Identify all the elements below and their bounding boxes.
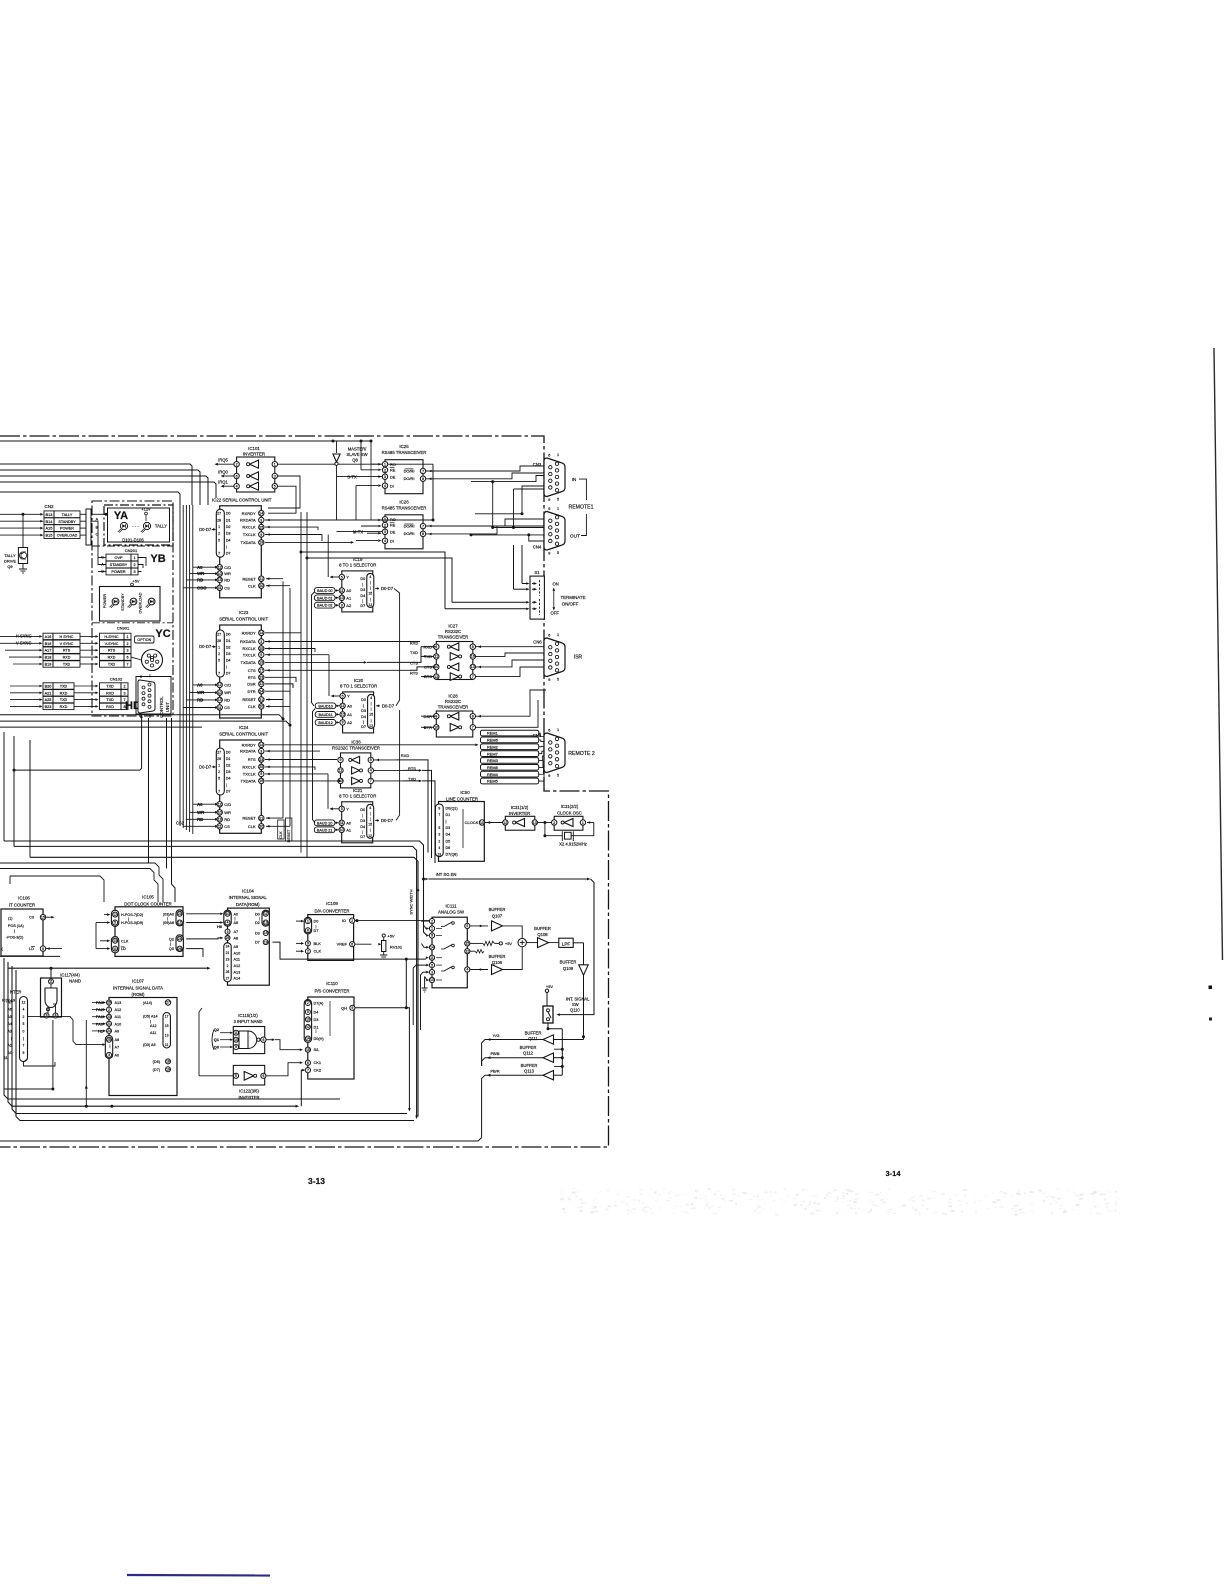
svg-text:27: 27 xyxy=(217,512,221,516)
svg-text:IC122(3/6): IC122(3/6) xyxy=(239,1089,259,1094)
svg-text:7: 7 xyxy=(472,675,474,679)
REM1-REM5 remote signal boxes xyxy=(481,730,546,784)
svg-text:RESET: RESET xyxy=(242,816,256,821)
svg-text:7: 7 xyxy=(218,552,220,556)
wires IC23 control A0 WR RD xyxy=(183,683,218,709)
svg-text:19: 19 xyxy=(259,661,263,665)
svg-text:15: 15 xyxy=(264,931,268,935)
svg-text:5: 5 xyxy=(557,498,559,502)
wire IC20 Y output xyxy=(329,655,340,698)
svg-text:YB: YB xyxy=(150,553,165,565)
svg-text:D2: D2 xyxy=(226,763,231,767)
svg-text:5: 5 xyxy=(218,776,220,780)
svg-text:YA: YA xyxy=(114,510,128,522)
svg-text:6: 6 xyxy=(548,728,550,732)
svg-text:1: 1 xyxy=(557,506,559,510)
page number 3-13 xyxy=(308,1176,325,1186)
serial control unit IC22 xyxy=(199,497,272,598)
svg-text:REM8: REM8 xyxy=(487,765,498,770)
svg-text:+5V: +5V xyxy=(546,984,554,989)
wire top bus y441 xyxy=(0,440,373,443)
svg-text:CN301: CN301 xyxy=(117,626,130,631)
svg-text:Y: Y xyxy=(346,575,349,580)
svg-text:DO/RI: DO/RI xyxy=(404,476,415,481)
svg-text:9: 9 xyxy=(548,678,550,682)
svg-text:PA2: PA2 xyxy=(96,1008,103,1012)
svg-text:DE: DE xyxy=(390,529,396,534)
svg-text:D7: D7 xyxy=(360,604,365,608)
svg-text:TXCLK: TXCLK xyxy=(243,772,256,777)
svg-text:BUFFER: BUFFER xyxy=(560,960,577,965)
svg-text:11: 11 xyxy=(340,589,344,593)
svg-text:H-POS-0(D9): H-POS-0(D9) xyxy=(121,921,143,925)
svg-text:5: 5 xyxy=(307,1010,309,1014)
svg-text:CS: CS xyxy=(224,705,230,710)
wire IC21 Y output xyxy=(328,774,339,810)
svg-text:9: 9 xyxy=(260,653,262,657)
svg-text:13: 13 xyxy=(218,698,222,702)
svg-text:9: 9 xyxy=(46,1014,48,1018)
svg-text:3: 3 xyxy=(123,691,125,695)
svg-text:VREF: VREF xyxy=(337,942,348,947)
svg-text:REM1: REM1 xyxy=(487,731,498,736)
svg-text:RXRDY: RXRDY xyxy=(242,742,256,747)
svg-text:D2: D2 xyxy=(226,645,231,649)
svg-text:10: 10 xyxy=(218,811,222,815)
svg-text:A0: A0 xyxy=(197,802,203,807)
svg-text:CLK: CLK xyxy=(248,704,256,709)
svg-text:25: 25 xyxy=(107,1038,111,1042)
svg-text:RS232C: RS232C xyxy=(445,699,461,704)
svg-text:|: | xyxy=(226,783,227,787)
svg-text:Q0: Q0 xyxy=(169,947,174,951)
svg-text:A12: A12 xyxy=(234,964,241,968)
wire BAUD select chain vertical xyxy=(312,592,316,823)
svg-text:INT SG EN: INT SG EN xyxy=(436,872,457,877)
svg-text:DATA(ROM): DATA(ROM) xyxy=(236,902,260,907)
svg-text:CLK: CLK xyxy=(314,949,322,954)
svg-text:DI: DI xyxy=(390,483,394,488)
svg-text:1: 1 xyxy=(149,674,151,678)
svg-text:|: | xyxy=(170,942,171,946)
svg-text:|: | xyxy=(235,916,236,920)
svg-text:REM2: REM2 xyxy=(487,744,498,749)
transistor Q8 master slave switch xyxy=(333,441,368,520)
connector CN5 REMOTE2 xyxy=(533,728,595,778)
svg-text:- - -: - - - xyxy=(132,524,139,529)
svg-text:IC20: IC20 xyxy=(354,678,364,683)
svg-text:BAUD 21: BAUD 21 xyxy=(317,828,332,832)
crystal X2 xyxy=(543,821,593,847)
svg-text:7: 7 xyxy=(23,1044,25,1048)
svg-text:D3: D3 xyxy=(361,709,366,713)
svg-text:LD: LD xyxy=(29,947,34,951)
svg-text:3: 3 xyxy=(260,640,262,644)
svg-text:8 TO 1 SELECTOR: 8 TO 1 SELECTOR xyxy=(340,683,377,688)
svg-text:POS (1A): POS (1A) xyxy=(8,924,24,928)
svg-text:11: 11 xyxy=(264,912,268,916)
svg-text:DTR: DTR xyxy=(247,689,255,694)
converter IC110 P/S xyxy=(304,981,355,1079)
svg-text:6: 6 xyxy=(435,645,437,649)
svg-text:15: 15 xyxy=(165,1024,169,1028)
svg-text:4: 4 xyxy=(369,806,371,810)
svg-text:3: 3 xyxy=(126,649,128,653)
page edge line right xyxy=(1214,348,1223,960)
switch S1 terminate xyxy=(530,570,586,619)
svg-text:REMOTE1: REMOTE1 xyxy=(568,505,593,511)
svg-text:A7: A7 xyxy=(234,930,239,934)
svg-text:B18: B18 xyxy=(45,656,52,660)
svg-text:OVERLOAD: OVERLOAD xyxy=(57,534,78,538)
svg-text:A0: A0 xyxy=(197,565,203,570)
svg-text:CK2: CK2 xyxy=(314,1068,322,1073)
svg-text:TALLY: TALLY xyxy=(4,553,16,558)
svg-text:RD: RD xyxy=(197,578,203,583)
svg-text:A1: A1 xyxy=(346,595,352,600)
svg-text:S/L: S/L xyxy=(314,1047,321,1052)
svg-text:IC26: IC26 xyxy=(399,499,409,504)
svg-text:POWER: POWER xyxy=(60,527,74,531)
svg-text:IC109: IC109 xyxy=(326,901,338,906)
svg-text:IO: IO xyxy=(342,918,346,923)
svg-text:A11: A11 xyxy=(234,958,240,962)
ROM IC104 internal signal data xyxy=(217,889,269,986)
svg-text:12: 12 xyxy=(218,565,222,569)
svg-text:RE: RE xyxy=(390,468,396,473)
svg-text:28: 28 xyxy=(217,639,221,643)
svg-text:5: 5 xyxy=(466,924,468,928)
svg-text:10: 10 xyxy=(218,691,222,695)
svg-text:A2: A2 xyxy=(346,603,352,608)
svg-text:26: 26 xyxy=(178,947,182,951)
svg-text:A21: A21 xyxy=(45,691,52,695)
svg-text:12: 12 xyxy=(218,802,222,806)
svg-text:NAND: NAND xyxy=(69,979,81,984)
svg-text:CLOCK: CLOCK xyxy=(465,820,479,825)
svg-text:11: 11 xyxy=(341,704,345,708)
svg-text:9: 9 xyxy=(431,934,433,938)
svg-text:D7: D7 xyxy=(226,671,231,675)
svg-text:5: 5 xyxy=(114,921,116,925)
svg-text:11: 11 xyxy=(430,956,434,960)
svg-text:9: 9 xyxy=(438,806,440,810)
svg-text:27: 27 xyxy=(226,976,230,980)
svg-text:2: 2 xyxy=(23,1015,25,1019)
svg-text:5: 5 xyxy=(341,575,343,579)
connector CN301 xyxy=(100,626,132,668)
svg-text:TXD: TXD xyxy=(410,650,418,655)
transceiver IC25 RS485 xyxy=(382,444,427,494)
svg-text:A16: A16 xyxy=(45,635,52,639)
svg-text:P/S CONVERTER: P/S CONVERTER xyxy=(314,988,349,993)
svg-text:Q109: Q109 xyxy=(563,966,574,971)
svg-text:DRIVE: DRIVE xyxy=(4,559,16,564)
svg-text:D7: D7 xyxy=(314,929,319,933)
svg-text:14: 14 xyxy=(306,1037,310,1041)
wires IC115 output to S/L xyxy=(266,1038,303,1051)
svg-text:5: 5 xyxy=(274,484,276,488)
svg-text:A7: A7 xyxy=(115,1046,120,1050)
svg-text:1: 1 xyxy=(557,633,559,637)
svg-text:OUT: OUT xyxy=(570,534,580,540)
svg-text:BUFFER: BUFFER xyxy=(521,1063,538,1068)
svg-text:A25: A25 xyxy=(45,698,52,702)
svg-text:REM7: REM7 xyxy=(487,751,498,756)
svg-text:6: 6 xyxy=(262,1074,264,1078)
svg-text:RD: RD xyxy=(224,578,230,583)
board frame dash-dot border xyxy=(0,436,609,1147)
svg-text:5: 5 xyxy=(341,807,343,811)
svg-text:21: 21 xyxy=(226,951,230,955)
svg-text:D4: D4 xyxy=(361,715,366,719)
svg-text:9: 9 xyxy=(235,1045,237,1049)
svg-text:RD: RD xyxy=(197,698,203,703)
resistor and +5V at switch xyxy=(470,941,512,963)
svg-text:TALLY: TALLY xyxy=(155,524,167,529)
svg-text:ANALOG SW: ANALOG SW xyxy=(438,910,465,915)
svg-text:6: 6 xyxy=(236,474,238,478)
svg-text:BAUD 01: BAUD 01 xyxy=(317,596,332,600)
svg-text:7: 7 xyxy=(422,469,424,473)
svg-text:|: | xyxy=(14,929,15,933)
svg-text:X2 4.9152MHz: X2 4.9152MHz xyxy=(559,842,587,847)
svg-text:9: 9 xyxy=(548,498,550,502)
svg-text:SLAVE SW: SLAVE SW xyxy=(346,452,367,457)
svg-text:8 TO 1 SELECTOR: 8 TO 1 SELECTOR xyxy=(339,793,376,798)
svg-text:RXDATA: RXDATA xyxy=(240,749,256,754)
svg-text:6: 6 xyxy=(126,656,128,660)
svg-text:3: 3 xyxy=(431,970,433,974)
svg-text:RESET: RESET xyxy=(242,697,256,702)
svg-text:2: 2 xyxy=(307,1001,309,1005)
svg-text:(1): (1) xyxy=(8,917,12,921)
svg-text:7: 7 xyxy=(438,813,440,817)
svg-text:IC107: IC107 xyxy=(132,979,144,984)
buffer Q112 xyxy=(482,1045,563,1066)
svg-text:4: 4 xyxy=(438,846,440,850)
svg-text:YC: YC xyxy=(155,628,170,640)
svg-text:|: | xyxy=(226,545,227,549)
svg-text:CLK: CLK xyxy=(248,824,256,829)
svg-text:2: 2 xyxy=(384,523,386,527)
svg-text:IT COUNTER: IT COUNTER xyxy=(9,902,35,907)
svg-text:CTS: CTS xyxy=(410,661,418,666)
svg-text:REMOTE 2: REMOTE 2 xyxy=(568,751,595,757)
svg-text:A10: A10 xyxy=(115,1022,122,1026)
svg-text:REM5: REM5 xyxy=(487,779,498,784)
svg-text:INT. SIGNAL: INT. SIGNAL xyxy=(566,997,590,1002)
svg-text:|: | xyxy=(370,581,371,585)
svg-text:5: 5 xyxy=(342,694,344,698)
svg-text:9: 9 xyxy=(42,947,44,951)
svg-text:+12V: +12V xyxy=(141,507,151,512)
svg-text:3: 3 xyxy=(260,749,262,753)
svg-text:BUFFER: BUFFER xyxy=(489,954,506,959)
svg-text:|: | xyxy=(362,582,363,586)
svg-text:D4: D4 xyxy=(226,658,231,662)
svg-text:OVERLOAD: OVERLOAD xyxy=(139,592,143,613)
connector HD control unit xyxy=(136,674,171,719)
svg-text:8 TO 1 SELECTOR: 8 TO 1 SELECTOR xyxy=(339,562,376,567)
svg-text:10: 10 xyxy=(218,572,222,576)
svg-text:9: 9 xyxy=(260,533,262,537)
svg-text:3: 3 xyxy=(384,475,386,479)
svg-text:13: 13 xyxy=(113,939,117,943)
svg-text:(03)A0: (03)A0 xyxy=(163,912,174,916)
svg-text:PB/R: PB/R xyxy=(490,1068,499,1073)
svg-text:RXRDY: RXRDY xyxy=(242,511,256,516)
svg-text:11: 11 xyxy=(434,655,438,659)
svg-text:A6: A6 xyxy=(234,921,239,925)
svg-text:|: | xyxy=(363,703,364,707)
svg-text:20: 20 xyxy=(259,705,263,709)
svg-text:25: 25 xyxy=(259,525,263,529)
buffer Q107 xyxy=(470,907,522,938)
svg-text:BLK: BLK xyxy=(314,941,322,946)
svg-text:7: 7 xyxy=(218,789,220,793)
svg-text:12: 12 xyxy=(369,724,373,728)
svg-text:TXD: TXD xyxy=(106,685,114,689)
connector CN102 xyxy=(100,677,141,713)
svg-text:A15: A15 xyxy=(46,526,53,531)
svg-text:A11: A11 xyxy=(150,1031,156,1035)
svg-text:IC28: IC28 xyxy=(448,694,458,699)
selector IC20 8-to-1 xyxy=(315,678,395,733)
svg-text:D3: D3 xyxy=(255,931,260,935)
svg-text:A13: A13 xyxy=(234,970,241,974)
svg-text:28: 28 xyxy=(217,757,221,761)
svg-text:10: 10 xyxy=(234,1038,238,1042)
svg-text:|: | xyxy=(150,1020,151,1024)
svg-text:1: 1 xyxy=(557,453,559,457)
svg-text:20: 20 xyxy=(259,825,263,829)
svg-text:8: 8 xyxy=(55,1014,57,1018)
svg-text:RTS: RTS xyxy=(248,675,256,680)
svg-text:8: 8 xyxy=(472,645,474,649)
svg-text:|: | xyxy=(370,597,371,601)
svg-text:|: | xyxy=(362,830,363,834)
svg-text:1: 1 xyxy=(274,462,276,466)
svg-text:D0: D0 xyxy=(226,632,231,636)
svg-text:23: 23 xyxy=(259,758,263,762)
counter IC106 bit counter xyxy=(1,896,62,957)
DAC IC109 D/A converter xyxy=(296,901,355,960)
svg-text:(09)A6: (09)A6 xyxy=(163,921,174,925)
bus vertical D0-D7 selectors xyxy=(394,589,400,821)
svg-text:26: 26 xyxy=(226,970,230,974)
svg-text:C/D: C/D xyxy=(224,565,231,570)
svg-text:RXCLK: RXCLK xyxy=(242,646,256,651)
svg-text:IRQ1: IRQ1 xyxy=(218,480,228,485)
wires IC27 to CN6 xyxy=(268,641,546,678)
svg-text:POWER: POWER xyxy=(103,594,107,609)
svg-text:2: 2 xyxy=(218,532,220,536)
svg-text:1: 1 xyxy=(557,728,559,732)
svg-text:B16: B16 xyxy=(45,642,52,646)
svg-text:A12: A12 xyxy=(115,1008,122,1012)
svg-text:|: | xyxy=(110,1044,111,1048)
svg-text:20: 20 xyxy=(259,584,263,588)
svg-text:A8: A8 xyxy=(115,1038,120,1042)
svg-text:RESET: RESET xyxy=(242,576,256,581)
svg-text:7: 7 xyxy=(472,726,474,730)
svg-text:(D5) A14: (D5) A14 xyxy=(143,1015,158,1019)
inverter IC31 1/2 xyxy=(485,805,552,830)
svg-text:15: 15 xyxy=(41,915,45,919)
svg-text:RXDATA: RXDATA xyxy=(240,518,256,523)
svg-text:|: | xyxy=(371,702,372,706)
svg-text:D3: D3 xyxy=(446,826,451,830)
svg-text:21: 21 xyxy=(107,1022,111,1026)
svg-text:12: 12 xyxy=(368,603,372,607)
svg-text:9: 9 xyxy=(341,603,343,607)
svg-text:IRQ0: IRQ0 xyxy=(218,470,228,475)
svg-text:15: 15 xyxy=(369,713,373,717)
svg-text:14: 14 xyxy=(259,631,263,635)
svg-text:D1: D1 xyxy=(226,639,231,643)
svg-text:A1: A1 xyxy=(346,827,352,832)
svg-text:Q112: Q112 xyxy=(523,1050,534,1055)
label REMOTE1 bracket xyxy=(568,479,593,535)
transceiver IC36 RS232C xyxy=(332,740,435,864)
svg-text:D0-D7: D0-D7 xyxy=(199,644,212,649)
svg-text:A12: A12 xyxy=(150,1024,157,1028)
svg-text:LINE COUNTER: LINE COUNTER xyxy=(446,797,478,802)
svg-text:13: 13 xyxy=(165,1034,169,1038)
svg-text:BAUD 20: BAUD 20 xyxy=(317,821,332,825)
svg-text:A2: A2 xyxy=(347,720,353,725)
svg-text:23: 23 xyxy=(178,912,182,916)
svg-text:IC105: IC105 xyxy=(142,895,154,900)
svg-text:3 INPUT NAND: 3 INPUT NAND xyxy=(233,1019,262,1024)
svg-text:21: 21 xyxy=(259,698,263,702)
svg-text:9: 9 xyxy=(548,774,550,778)
svg-text:24: 24 xyxy=(226,945,230,949)
svg-text:D3: D3 xyxy=(360,588,365,592)
svg-text:(A14): (A14) xyxy=(143,1001,153,1005)
svg-text:D0-D7: D0-D7 xyxy=(381,586,394,591)
switch Q110 int signal xyxy=(543,984,590,1075)
svg-text:CK1: CK1 xyxy=(314,1060,322,1065)
svg-text:2: 2 xyxy=(431,919,433,923)
svg-text:CLK: CLK xyxy=(121,939,129,943)
svg-text:B23: B23 xyxy=(45,705,52,709)
svg-text:13: 13 xyxy=(471,665,475,669)
svg-text:6: 6 xyxy=(548,633,550,637)
serial control unit IC23 xyxy=(199,610,268,718)
svg-text:|: | xyxy=(371,707,372,711)
svg-text:RXD: RXD xyxy=(108,656,116,660)
svg-text:RXD: RXD xyxy=(106,691,114,695)
svg-text:2: 2 xyxy=(438,839,440,843)
svg-text:8: 8 xyxy=(370,758,372,762)
svg-text:BUFFER: BUFFER xyxy=(489,907,506,912)
svg-text:10: 10 xyxy=(480,821,484,825)
svg-text:IC25: IC25 xyxy=(399,444,409,449)
svg-text:CS: CS xyxy=(224,824,230,829)
svg-text:STANDBY: STANDBY xyxy=(58,520,76,524)
wire bottom bus lines xyxy=(0,958,482,1141)
svg-text:TERMINATE: TERMINATE xyxy=(560,595,585,600)
svg-text:INVERTER: INVERTER xyxy=(243,452,265,457)
svg-text:D0-D7: D0-D7 xyxy=(199,527,212,532)
svg-text:A0: A0 xyxy=(197,683,203,688)
svg-text:3-14: 3-14 xyxy=(885,1169,901,1178)
svg-text:|: | xyxy=(370,811,371,815)
svg-text:RXRDY: RXRDY xyxy=(242,630,256,635)
svg-text:IC27: IC27 xyxy=(448,624,458,629)
